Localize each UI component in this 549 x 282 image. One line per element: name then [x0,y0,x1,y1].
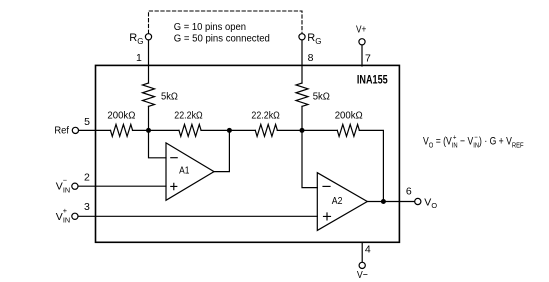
svg-text:V−: V− [357,269,368,281]
svg-text:200kΩ: 200kΩ [107,109,135,121]
svg-text:22.2kΩ: 22.2kΩ [174,110,203,122]
svg-text:5kΩ: 5kΩ [313,91,330,103]
svg-text:2: 2 [84,172,90,184]
svg-text:5: 5 [84,116,90,128]
svg-text:G = 50 pins connected: G = 50 pins connected [174,32,270,44]
svg-text:Ref: Ref [54,124,69,136]
svg-text:200kΩ: 200kΩ [335,109,363,121]
svg-text:+: + [63,206,67,215]
svg-text:3: 3 [84,201,90,213]
svg-text:−: − [474,134,477,142]
svg-text:4: 4 [365,243,371,255]
svg-text:8: 8 [308,52,314,64]
svg-text:A2: A2 [332,195,343,207]
svg-text:6: 6 [406,186,412,198]
svg-text:7: 7 [365,53,371,65]
svg-text:A1: A1 [179,165,189,177]
svg-text:V+: V+ [356,23,366,35]
svg-text:G = 10 pins open: G = 10 pins open [174,21,246,33]
svg-text:+: + [453,134,456,142]
svg-text:5kΩ: 5kΩ [161,91,178,103]
svg-text:1: 1 [136,52,142,64]
svg-text:−: − [63,176,67,185]
svg-text:22.2kΩ: 22.2kΩ [251,110,280,122]
svg-text:INA155: INA155 [357,72,388,86]
